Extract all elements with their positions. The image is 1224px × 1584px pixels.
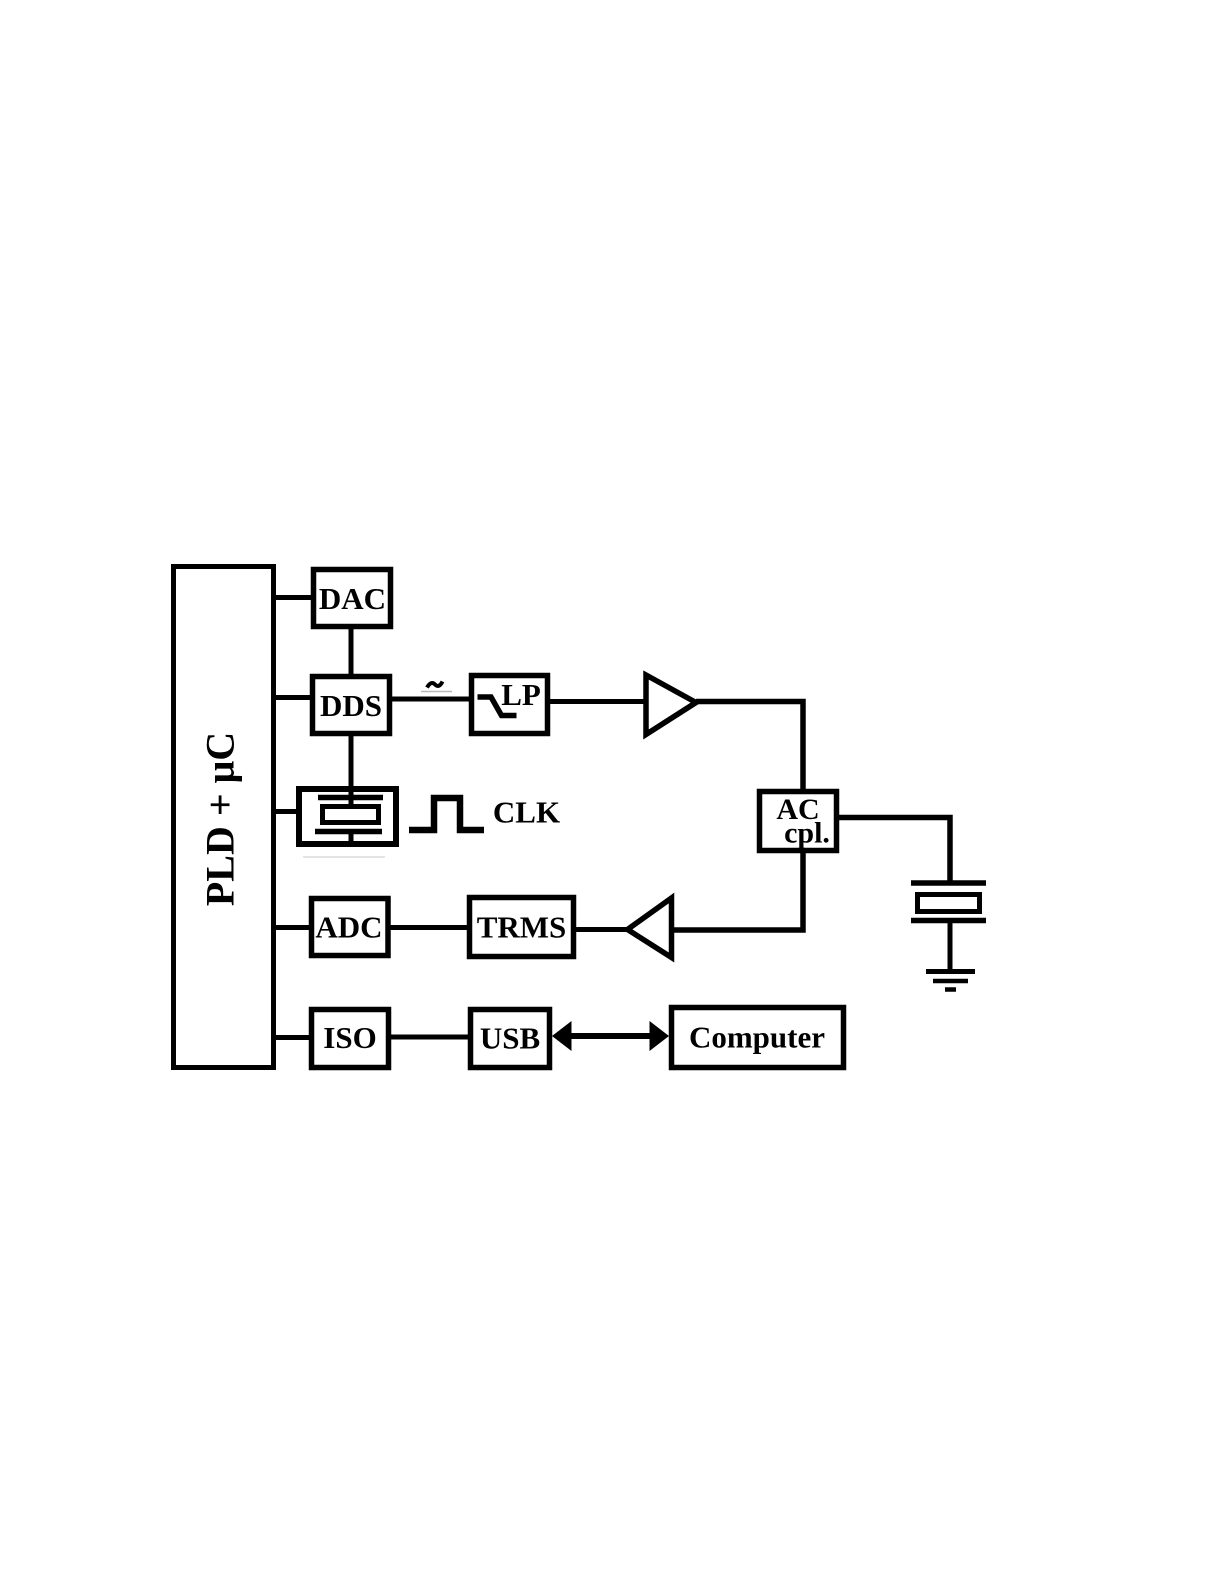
wire crystal X2 to ground [948, 920, 953, 971]
wire AC cpl to crystal X2 [837, 818, 950, 884]
block AC cpl [760, 792, 837, 851]
svg-text:DDS: DDS [320, 688, 382, 723]
block ISO [312, 1010, 389, 1068]
svg-text:Computer: Computer [689, 1020, 825, 1055]
wire TRMS to ADC [314, 925, 467, 930]
label CLK waveform pulse [409, 798, 484, 830]
wire PLD to ISO [273, 1035, 314, 1040]
op-amp A1 output amplifier [646, 675, 696, 735]
svg-text:PLD + μC: PLD + μC [198, 732, 243, 906]
wire USB to Computer bidirectional arrow [552, 1021, 669, 1051]
crystal oscillator X1 [299, 789, 396, 844]
wire LP to amplifier A1 [547, 699, 645, 704]
svg-text:CLK: CLK [493, 795, 560, 830]
svg-text:ADC: ADC [315, 910, 382, 945]
block Computer [672, 1008, 844, 1068]
wire DDS to crystal oscillator [349, 733, 354, 804]
wire ADC to PLD [273, 925, 311, 930]
svg-text:USB: USB [480, 1021, 540, 1056]
block LP lowpass filter [472, 676, 548, 734]
wire PLD to DAC [273, 595, 313, 600]
wire DAC to DDS [349, 627, 354, 678]
scan artifact line under crystal oscillator [303, 856, 385, 858]
svg-text:TRMS: TRMS [477, 910, 567, 945]
wire amplifier A2 to TRMS [574, 927, 628, 932]
wire PLD to crystal oscillator [273, 809, 299, 814]
label sine tilde on DDS output [421, 682, 452, 692]
svg-text:cpl.: cpl. [784, 817, 830, 850]
svg-text:DAC: DAC [319, 581, 386, 616]
crystal X2 quartz sensor [911, 883, 986, 921]
block DAC [314, 570, 391, 627]
block TRMS [470, 898, 574, 957]
wire amplifier A1 to AC cpl [696, 702, 803, 794]
block USB [471, 1010, 550, 1068]
block U1: PLD + uC [174, 567, 274, 1068]
wire DDS to LP [390, 697, 472, 702]
svg-text:ISO: ISO [323, 1020, 376, 1055]
op-amp A2 input amplifier [628, 898, 672, 958]
wire ISO to USB [386, 1035, 472, 1040]
block DDS [313, 677, 390, 734]
svg-text:LP: LP [501, 677, 541, 712]
wire PLD to DDS [273, 695, 313, 700]
wire AC cpl to amplifier A2 [672, 849, 803, 930]
block ADC [312, 899, 389, 956]
ground [926, 972, 975, 990]
